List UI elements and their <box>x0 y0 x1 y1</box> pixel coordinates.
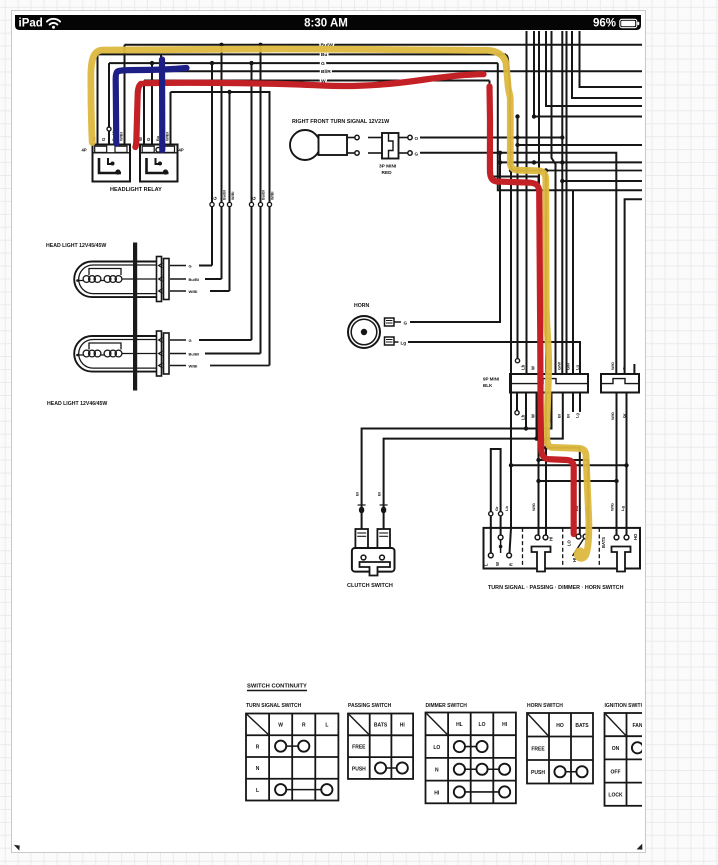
svg-text:W: W <box>531 365 536 370</box>
iPad status bar <box>15 15 641 30</box>
wire HL2 Bu/Bl <box>205 353 261 355</box>
svg-text:PUSH: PUSH <box>531 770 545 776</box>
turn signal base <box>319 135 348 155</box>
wire G branch to 9P pin G/R <box>572 190 574 374</box>
svg-text:W/Bl: W/Bl <box>189 289 198 294</box>
passing table grid <box>348 714 413 779</box>
clutch switch bullet 2 <box>381 507 386 514</box>
horn terminal Lg <box>385 337 395 345</box>
headlight 2 filament coil loop <box>89 350 96 357</box>
headlight 2 lead to socket <box>122 353 157 355</box>
turn signal table grid <box>246 714 338 801</box>
svg-text:G/W: G/W <box>557 362 562 370</box>
wire Bu top bus <box>98 53 507 55</box>
9P pin1 bottom stub <box>516 393 518 411</box>
wire HL1 W/Bl <box>210 290 230 292</box>
junction y162 x562 <box>560 160 564 164</box>
headlight 2 coil bridge <box>101 354 104 356</box>
wire O stub with bullet end <box>517 117 519 359</box>
highlight yellow marker trace <box>91 49 589 558</box>
wire Bu vertical drop and jog to 9P area <box>506 55 642 171</box>
svg-text:4P: 4P <box>82 148 87 153</box>
svg-text:LO: LO <box>433 745 440 751</box>
svg-text:BATS: BATS <box>374 723 388 729</box>
svg-text:W/Bl: W/Bl <box>271 192 275 200</box>
clutch terminal 1 hatch2 <box>357 535 366 537</box>
svg-text:HORN: HORN <box>354 303 370 309</box>
wiring diagram (clipped to page) <box>46 31 671 806</box>
wire HL1 W/Bl vertical <box>229 92 231 291</box>
headlight 2 shell inner <box>79 340 158 369</box>
svg-text:CLUTCH SWITCH: CLUTCH SWITCH <box>347 583 393 589</box>
svg-text:W/Bl: W/Bl <box>189 363 198 368</box>
horn terminal G hatch 2 <box>386 322 393 324</box>
wire horizontal y145 <box>518 144 643 146</box>
svg-text:HEAD LIGHT 12V45/45W: HEAD LIGHT 12V45/45W <box>46 243 106 249</box>
horn body outer <box>348 316 380 348</box>
svg-text:96%: 96% <box>593 17 616 29</box>
svg-text:G: G <box>101 137 106 141</box>
relay 2 coil path <box>147 158 169 173</box>
svg-text:W/G: W/G <box>531 503 536 511</box>
horn G stub <box>394 321 401 323</box>
svg-text:IG: IG <box>657 723 662 729</box>
svg-text:Lg: Lg <box>401 340 407 345</box>
svg-text:DIMMER SWITCH: DIMMER SWITCH <box>426 703 468 709</box>
svg-text:W: W <box>531 413 536 418</box>
svg-text:L: L <box>325 723 328 729</box>
clutch terminal 2 hatch2 <box>379 535 388 537</box>
wire G drop east <box>498 63 642 190</box>
junction at W drop y481 <box>536 479 540 483</box>
wire vertical corner east y98 <box>572 31 642 98</box>
ignition table continuity row1 <box>638 747 660 749</box>
junction y465 left <box>509 463 513 467</box>
horn terminal G <box>385 318 395 326</box>
dimmer table continuity row1 <box>459 746 482 748</box>
headlight 1 filament coil loop <box>110 276 117 283</box>
switch section divider <box>562 528 564 569</box>
headlight 1 prong <box>159 263 163 268</box>
wire clutch 1 to 9P Bu/W <box>362 393 552 530</box>
headlight 2 filament lead <box>76 354 79 357</box>
svg-text:Bl/R: Bl/R <box>321 69 331 75</box>
svg-text:FAN: FAN <box>633 723 643 729</box>
svg-text:Bu/Bl: Bu/Bl <box>189 277 199 282</box>
svg-text:9P MINI: 9P MINI <box>483 377 499 382</box>
wire O from turn signal <box>420 137 562 139</box>
3P connector key notch <box>389 133 394 159</box>
horn terminal Lg hatch <box>386 339 393 341</box>
headlight 1 prong <box>159 277 163 282</box>
headlight 1 lead to socket <box>122 278 157 280</box>
wire W drop through 9P to switch <box>490 81 539 537</box>
wire HL1 G stub <box>170 265 186 267</box>
headlight 2 prong <box>159 351 163 356</box>
passing table continuity row2 <box>381 767 403 769</box>
svg-text:Lb: Lb <box>504 506 509 511</box>
junction Bu/W x221 <box>219 43 223 47</box>
svg-text:HO: HO <box>556 723 564 729</box>
svg-text:R: R <box>509 563 514 566</box>
wire Lb vertical to 9P <box>526 31 528 374</box>
wire W/G horn-passing link <box>539 480 617 482</box>
svg-text:TURN SIGNAL · PASSING · DIMMER: TURN SIGNAL · PASSING · DIMMER · HORN SW… <box>488 585 624 591</box>
svg-text:OFF: OFF <box>611 769 621 775</box>
junction y116 x534 <box>532 114 536 118</box>
3P lead O right <box>399 137 408 139</box>
2P third pin stub <box>633 364 635 374</box>
svg-text:BATS: BATS <box>575 723 589 729</box>
junction W/G link <box>614 479 618 483</box>
turn signal lead O <box>347 137 355 139</box>
svg-text:W/G: W/G <box>610 503 615 511</box>
headlight 2 lead left <box>78 354 84 356</box>
wire vertical corner east y87 <box>580 31 643 87</box>
highlight red marker left segment <box>135 84 141 147</box>
2P W/G bottom to horn switch <box>616 393 618 536</box>
svg-text:G: G <box>415 151 419 156</box>
junction at W drop y460 <box>536 458 540 462</box>
svg-text:W/G: W/G <box>610 362 615 370</box>
horn table continuity row2 <box>560 771 582 773</box>
svg-text:G: G <box>189 338 192 343</box>
wire horizontal y162 <box>500 161 642 163</box>
clutch switch body <box>352 548 395 572</box>
svg-text:Gr: Gr <box>622 413 627 418</box>
wire HL2 Bu/Bl stub <box>170 353 186 355</box>
wire link y465 <box>511 464 627 466</box>
3P lead G right <box>399 152 408 154</box>
clutch plunger <box>360 562 391 576</box>
horn Lg stub <box>394 341 399 343</box>
contact R bottom <box>507 553 512 558</box>
svg-text:3P MINI: 3P MINI <box>379 164 397 170</box>
junction Lb top <box>509 168 513 172</box>
clutch terminal 2 hatch <box>379 532 388 534</box>
svg-text:Bl: Bl <box>557 414 562 418</box>
wire horn G <box>410 153 500 322</box>
relay 2 pin socket b <box>163 146 175 152</box>
headlight 2 filament coil loop <box>115 350 122 357</box>
headlight 1 filament lead <box>76 279 79 282</box>
headlight 1 prong <box>159 289 163 294</box>
horn contact Lg <box>624 535 629 540</box>
relay2 pin Bu <box>160 54 162 144</box>
svg-text:O: O <box>415 136 419 141</box>
clutch bullet 1 ticks <box>358 504 366 506</box>
headlight 1 upper lead <box>89 269 121 276</box>
bullet connector x221.5 <box>219 202 223 206</box>
svg-text:iPad: iPad <box>19 17 43 29</box>
relay 1 contact blob <box>115 169 120 174</box>
wire G from turn signal <box>420 153 616 374</box>
svg-text:L: L <box>484 563 489 566</box>
passing contact HI <box>543 535 548 540</box>
svg-text:W: W <box>278 723 283 729</box>
bullet switch pin 1 <box>489 512 493 516</box>
wire Gr corner from edge <box>625 199 642 374</box>
svg-text:HEAD LIGHT 12V46/45W: HEAD LIGHT 12V46/45W <box>47 401 107 407</box>
dimmer contact b <box>583 534 588 539</box>
svg-text:Bu/Bl: Bu/Bl <box>223 190 227 200</box>
switch pin Lb inside <box>510 528 512 553</box>
wire vertical corner east y106 <box>546 31 642 106</box>
svg-text:Bl: Bl <box>377 492 382 496</box>
wire Bu/W vertical to 9P <box>552 31 556 374</box>
junction y181 x562 <box>560 179 564 183</box>
clutch terminal 1 <box>355 529 368 548</box>
wire vertical corner to east y116 <box>534 31 642 117</box>
svg-text:N: N <box>256 766 260 772</box>
junction yellow-route x546 <box>544 445 548 449</box>
horn contact W/G <box>614 535 619 540</box>
svg-text:LOCK: LOCK <box>608 793 623 799</box>
bullet connector x212 <box>210 202 214 206</box>
relay1 pin Bl <box>97 54 99 144</box>
svg-text:Gr: Gr <box>622 365 627 370</box>
switch W link <box>500 540 502 553</box>
horn terminal G hatch <box>386 320 393 322</box>
svg-text:ON: ON <box>612 746 620 752</box>
svg-text:LO: LO <box>479 722 486 728</box>
wire vertical to 9P pin mid <box>566 31 568 374</box>
highlight blue marker horizontal <box>116 68 187 144</box>
clutch bullet 2 ticks <box>380 504 388 506</box>
switch pin Gr inside <box>500 516 502 535</box>
relay 1 coil path <box>99 158 121 173</box>
relay 2 arm blob <box>158 162 162 166</box>
headlight 1 coil bridge <box>101 280 104 282</box>
bullet connector x251.5 <box>249 202 253 206</box>
headlight relay 1 box <box>93 145 131 182</box>
relay 1 arm blob <box>111 162 115 166</box>
svg-text:HI: HI <box>549 537 554 541</box>
svg-text:W: W <box>495 562 500 566</box>
headlight 2 shell outer <box>74 336 157 372</box>
3P MINI RED connector <box>382 133 399 159</box>
wire Lb long vertical <box>510 171 512 528</box>
terminal O left <box>355 135 359 139</box>
relay 1 pin socket b <box>115 146 127 152</box>
terminal G left <box>355 151 359 155</box>
horn switch plunger <box>612 547 631 572</box>
wire Bu/W through 9P (yellow route) <box>545 171 547 375</box>
relay 1 switch arm <box>108 158 114 164</box>
svg-text:G: G <box>189 263 192 268</box>
svg-text:Bu/Bl: Bu/Bl <box>262 190 266 200</box>
headlight 2 prong <box>159 363 163 368</box>
9P pin9 bottom stub <box>579 393 581 413</box>
clutch contact 2 <box>380 555 385 560</box>
svg-text:HORN SWITCH: HORN SWITCH <box>527 703 563 709</box>
headlight 2 filament coil loop <box>110 350 117 357</box>
bullet end of O stub <box>515 359 519 363</box>
wire HL1 Bu/Bl <box>205 278 222 280</box>
junction relay2 G <box>150 61 154 65</box>
junction G x500 <box>498 151 502 155</box>
svg-text:HI: HI <box>400 723 406 729</box>
svg-text:HI: HI <box>502 722 508 728</box>
turn signal table continuity row1 <box>281 745 304 747</box>
svg-text:Gr: Gr <box>494 506 499 511</box>
relay2 pin G <box>151 63 153 144</box>
passing contact W/G <box>535 535 540 540</box>
wire vertical to 9P pin Bl <box>561 31 563 374</box>
svg-text:Lb: Lb <box>521 414 526 420</box>
dimmer table grid <box>426 713 516 804</box>
svg-text:HEADLIGHT RELAY: HEADLIGHT RELAY <box>110 187 162 193</box>
headlight 2 socket plate 2 <box>164 333 170 374</box>
dimmer lever <box>573 539 584 556</box>
junction O-wire x562 <box>560 135 564 139</box>
turn signal bulb <box>290 130 320 160</box>
relay1 pin G bullet <box>107 127 111 131</box>
junction Lb clutch wire <box>524 426 528 430</box>
junction Bu jog x546 <box>544 168 548 172</box>
svg-text:RIGHT FRONT TURN SIGNAL 12V21W: RIGHT FRONT TURN SIGNAL 12V21W <box>292 119 390 125</box>
junction G x212 <box>210 61 214 65</box>
junction W clutch wire <box>534 436 538 440</box>
headlight 1 filament coil loop <box>94 276 101 283</box>
junction G x251 <box>249 61 253 65</box>
svg-text:PASSING SWITCH: PASSING SWITCH <box>348 703 392 709</box>
headlight 2 filament coil loop <box>104 350 111 357</box>
bullet connector x269.5 <box>267 202 271 206</box>
bullet below 9P pin1 <box>515 411 519 415</box>
junction y465 right <box>624 463 628 467</box>
svg-text:BLK: BLK <box>483 383 493 388</box>
svg-text:Bu: Bu <box>321 52 328 58</box>
headlight 2 upper lead <box>89 343 121 350</box>
svg-text:Lg: Lg <box>575 365 580 370</box>
relay 2 pin socket a <box>142 146 154 152</box>
svg-text:4P: 4P <box>179 148 184 153</box>
svg-text:Bu/Bl: Bu/Bl <box>189 351 199 356</box>
clutch terminal 2 <box>377 529 390 548</box>
headlight 2 socket plate 1 <box>157 331 162 376</box>
svg-text:G: G <box>404 320 408 325</box>
svg-text:W/G: W/G <box>610 412 615 420</box>
svg-text:HI: HI <box>434 790 440 796</box>
wire dimmer pin2 link <box>539 460 589 536</box>
contact L bottom <box>488 553 493 558</box>
wire HL2 Bu/Bl vertical <box>260 45 262 354</box>
svg-text:8:30 AM: 8:30 AM <box>304 17 348 29</box>
svg-text:Lb: Lb <box>521 364 526 370</box>
turn signal table continuity row3 <box>281 789 327 791</box>
relay 1 pin socket a <box>95 146 107 152</box>
junction W/Bl x229 <box>227 90 231 94</box>
headlight bracket bar <box>133 243 137 391</box>
junction W link <box>499 545 503 549</box>
9P pin Lb bottom <box>525 393 527 429</box>
relay2 socket bullet <box>156 147 161 152</box>
svg-text:PUSH: PUSH <box>352 766 366 772</box>
lead G to 3P <box>368 152 382 154</box>
relay 2 contact blob <box>163 169 168 174</box>
svg-text:G: G <box>321 61 325 67</box>
wire Bl/R top bus <box>117 70 642 72</box>
page corner mark bottom-right <box>637 844 643 850</box>
status bar battery icon <box>620 19 637 27</box>
svg-text:Lg: Lg <box>575 413 580 418</box>
junction y145 x517 <box>515 143 519 147</box>
wire HL1 G vertical <box>211 63 213 265</box>
relay 2 header line <box>140 152 178 154</box>
turn signal lead G <box>347 152 355 154</box>
relay 2 switch arm <box>156 158 162 164</box>
terminal G right <box>408 151 412 155</box>
svg-text:Bl: Bl <box>355 492 360 496</box>
relay2 pin W/Bl <box>170 92 172 145</box>
wire HL1 Bu/Bl vertical <box>221 45 223 279</box>
switch assembly box <box>484 528 641 569</box>
clutch contact 1 <box>361 555 366 560</box>
horn table grid <box>527 713 593 784</box>
wire Bu/W below 9P to dimmer <box>546 393 580 537</box>
horn body inner <box>351 319 377 345</box>
headlight 2 prong <box>159 338 163 343</box>
headlight 1 lead left <box>78 280 84 282</box>
switch continuity underline <box>247 690 307 692</box>
svg-text:G: G <box>146 137 151 141</box>
svg-text:W/Bl: W/Bl <box>231 192 235 200</box>
wire Bu/W top bus <box>125 44 643 46</box>
9P pin W bottom <box>536 393 538 439</box>
wire W top bus <box>144 80 490 82</box>
headlight 1 filament coil loop <box>89 276 96 283</box>
svg-text:LO: LO <box>567 539 572 546</box>
junction O stub top <box>515 114 519 118</box>
ignition table grid <box>605 713 671 806</box>
headlight 1 socket plate 2 <box>164 259 170 300</box>
svg-text:BATS: BATS <box>601 537 606 548</box>
2P key step <box>601 379 639 384</box>
svg-text:N: N <box>435 768 439 774</box>
9P MINI BLK connector <box>510 374 588 393</box>
svg-text:HO: HO <box>633 533 638 540</box>
highlight red marker main trace <box>490 87 574 535</box>
relay1 pin G <box>108 63 110 144</box>
svg-text:L: L <box>256 788 259 794</box>
horn center <box>361 329 367 335</box>
wire HL2 G <box>199 339 252 341</box>
headlight 1 socket plate 1 <box>157 257 162 302</box>
clutch switch bullet 1 <box>359 507 364 514</box>
headlight 1 filament coil loop <box>83 276 90 283</box>
wire W vertical to 9P <box>538 31 540 374</box>
dimmer contact a <box>576 534 581 539</box>
wire HL1 Bu/Bl stub <box>170 278 186 280</box>
2P Gr bottom to horn switch <box>626 393 628 536</box>
svg-text:R: R <box>302 723 306 729</box>
headlight relay 2 box <box>140 145 178 182</box>
9P key step <box>510 379 588 384</box>
wire horn Lg <box>408 342 580 374</box>
wire HL2 W/Bl <box>210 365 270 367</box>
dimmer continuity row2 all <box>459 768 504 770</box>
headlight 2 filament coil loop <box>94 350 101 357</box>
bullet switch pin Gr <box>499 512 503 516</box>
contact W top <box>498 535 503 540</box>
svg-text:TURN SIGNAL SWITCH: TURN SIGNAL SWITCH <box>246 703 302 709</box>
headlight 1 filament coil loop <box>115 276 122 283</box>
passing switch plunger <box>532 547 551 572</box>
terminal O right <box>408 135 412 139</box>
wire clutch 2 to 9P Bl <box>384 393 563 530</box>
wire HL1 G <box>199 265 212 267</box>
